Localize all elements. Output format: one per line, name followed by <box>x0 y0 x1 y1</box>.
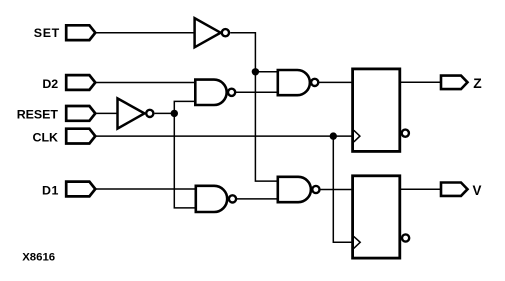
svg-text:X8616: X8616 <box>22 251 55 263</box>
svg-text:SET: SET <box>34 26 60 40</box>
svg-text:D2: D2 <box>42 77 58 91</box>
svg-text:RESET: RESET <box>17 108 59 122</box>
svg-text:Z: Z <box>473 76 482 91</box>
svg-text:D1: D1 <box>42 183 58 197</box>
svg-text:CLK: CLK <box>33 130 59 144</box>
svg-text:V: V <box>473 183 482 198</box>
